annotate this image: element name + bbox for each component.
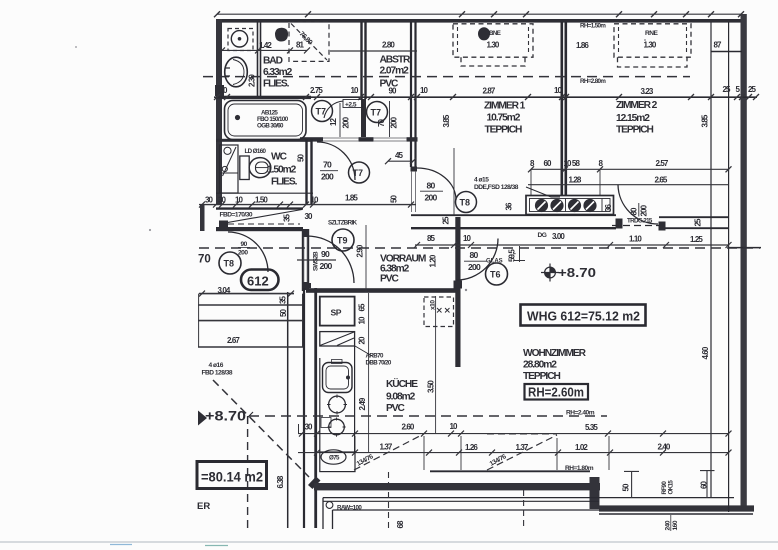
svg-text:200: 200: [320, 261, 333, 271]
kitchen oval fixture: [321, 450, 346, 464]
svg-text:65: 65: [358, 303, 367, 312]
svg-text:DDE,FSD 128/38: DDE,FSD 128/38: [474, 184, 519, 191]
svg-text:36: 36: [604, 203, 613, 212]
door jamb lines alcoves: [323, 138, 407, 141]
svg-text:=80.14 m2: =80.14 m2: [201, 469, 263, 485]
svg-text:ABSTR.: ABSTR.: [380, 55, 413, 66]
svg-text:50: 50: [279, 308, 288, 317]
svg-text:4 ø15: 4 ø15: [474, 177, 489, 184]
svg-text:WOHNZIMMER: WOHNZIMMER: [523, 348, 587, 359]
wc bowl inner line: [256, 167, 269, 169]
svg-text:1.50m2: 1.50m2: [267, 165, 297, 176]
speck4: [644, 39, 646, 41]
svg-text:1.86: 1.86: [576, 41, 589, 50]
svg-text:RNE: RNE: [645, 30, 659, 37]
wall pier left bad corner: [215, 85, 224, 96]
svg-text:45: 45: [395, 151, 404, 160]
svg-text:DG: DG: [538, 232, 547, 239]
svg-text:10: 10: [463, 234, 472, 243]
dim line kueche bottom row2: [298, 452, 729, 454]
svg-text:ARB70: ARB70: [366, 353, 384, 360]
svg-text:1.10: 1.10: [629, 235, 642, 244]
svg-text:28.80m2: 28.80m2: [523, 360, 557, 371]
svg-text:134/76: 134/76: [489, 453, 508, 468]
landing right vertical: [302, 294, 304, 347]
svg-text:T7: T7: [316, 107, 327, 117]
ticks wc row: [199, 202, 414, 208]
top dim ticks: [214, 11, 744, 17]
svg-text:10: 10: [358, 316, 367, 325]
wc shaft circle small: [222, 166, 227, 171]
svg-text:WC: WC: [271, 152, 288, 163]
svg-text:25: 25: [442, 216, 451, 225]
roof window zimmer1 bracket: [461, 57, 525, 66]
svg-text:200: 200: [640, 204, 649, 216]
svg-text:2.67: 2.67: [227, 336, 240, 345]
svg-text:70: 70: [323, 160, 332, 170]
ticks corridor row: [414, 242, 732, 248]
svg-text:200: 200: [468, 262, 481, 272]
wc bowl: [249, 158, 271, 178]
svg-text:10.75m2: 10.75m2: [487, 113, 521, 124]
svg-text:6.38: 6.38: [276, 475, 285, 488]
svg-text:SZLTZBRIK: SZLTZBRIK: [328, 220, 358, 227]
wall wc south line: [216, 192, 313, 194]
svg-text:OGB 30/60: OGB 30/60: [257, 123, 284, 130]
svg-text:RH=1.80m: RH=1.80m: [565, 465, 594, 472]
svg-text:T7: T7: [353, 168, 364, 178]
svg-text:200: 200: [425, 193, 438, 203]
svg-text:200: 200: [342, 116, 351, 128]
svg-text:1.30: 1.30: [644, 41, 657, 50]
kitchen small box h2: [321, 418, 331, 428]
svg-text:36: 36: [505, 202, 514, 211]
svg-text:1.37: 1.37: [380, 443, 393, 452]
door label circle t9: [332, 229, 354, 251]
svg-text:3.50: 3.50: [427, 380, 436, 393]
kitchen hob cross1: [327, 395, 347, 415]
svg-text:KÜCHE: KÜCHE: [386, 377, 418, 390]
svg-text:10 58: 10 58: [564, 159, 581, 168]
svg-text:3.23: 3.23: [641, 87, 654, 96]
door leaf bad alcove: [339, 103, 341, 137]
terrace floor line mid: [323, 500, 599, 502]
wall tub south: [216, 139, 312, 142]
chain ticks y96: [214, 94, 759, 100]
svg-text:ZIMMER 1: ZIMMER 1: [484, 101, 526, 112]
svg-text:RH=2.80m: RH=2.80m: [580, 78, 606, 85]
landing line 3 2.67: [198, 346, 303, 348]
whg area box: [521, 305, 646, 326]
svg-text:68: 68: [396, 520, 405, 529]
divider 240 160: [670, 515, 672, 531]
svg-text:90: 90: [241, 241, 248, 248]
svg-text:FLIES.: FLIES.: [263, 79, 290, 90]
svg-text:81: 81: [296, 41, 305, 50]
svg-text:2.60: 2.60: [402, 423, 415, 432]
parapet wall bottom band: [314, 483, 600, 490]
svg-text:5.35: 5.35: [585, 423, 598, 432]
svg-text:2.57: 2.57: [656, 159, 669, 168]
wall washer niche divider: [258, 21, 261, 96]
kitchen hob circle1: [329, 396, 346, 413]
wall left outer: [216, 19, 222, 204]
svg-text:T7: T7: [371, 108, 382, 118]
svg-text:87: 87: [714, 41, 723, 50]
door arc entrance: [228, 232, 268, 272]
svg-text:RH=1.50m: RH=1.50m: [580, 23, 606, 30]
bathtub outer: [225, 101, 307, 140]
svg-text:35: 35: [279, 295, 288, 304]
door jamb lines zimmer1: [412, 171, 416, 212]
svg-text:x10: x10: [430, 300, 437, 310]
svg-text:10: 10: [220, 86, 229, 95]
svg-text:Ø75: Ø75: [329, 455, 340, 462]
washing machine circle: [231, 31, 247, 47]
svg-text:30: 30: [205, 196, 214, 205]
wall corridor south top line: [411, 214, 616, 216]
dim line 128-265 row: [528, 184, 729, 186]
kitchen stove rect: [320, 332, 355, 346]
svg-text:+8.70: +8.70: [205, 409, 246, 424]
dashed vertical left: [247, 416, 249, 533]
svg-text:TEPPICH: TEPPICH: [485, 125, 522, 136]
door label circle t6 glas: [486, 263, 508, 285]
svg-text:BAD: BAD: [263, 56, 283, 67]
svg-text:3.85: 3.85: [701, 114, 710, 127]
wall corridor east of z2door: [659, 217, 729, 228]
dim line corridor row: [415, 244, 729, 246]
washing machine dot: [238, 37, 242, 41]
svg-text:10: 10: [311, 196, 320, 205]
svg-text:6.33m2: 6.33m2: [263, 67, 293, 78]
svg-text:T8: T8: [224, 259, 235, 269]
svg-text:TRDG.215: TRDG.215: [627, 218, 653, 225]
svg-text:SP: SP: [331, 308, 342, 318]
terrace vertical left: [323, 498, 333, 529]
wall pier bad alcove: [361, 99, 366, 137]
sloped ceiling diagonal bad: [291, 24, 327, 61]
socket divider: [566, 199, 603, 212]
right wall dim line: [728, 22, 730, 512]
plus25 box: [343, 100, 363, 108]
wall t9 vorraum-west: [303, 229, 308, 291]
svg-text:60: 60: [544, 159, 553, 168]
wc shaft rect: [220, 145, 239, 193]
right wall inner face line: [710, 22, 712, 497]
washbasin: [225, 57, 248, 87]
svg-text:2.65: 2.65: [655, 176, 668, 185]
svg-text:10: 10: [420, 86, 429, 95]
svg-text:200: 200: [321, 172, 334, 182]
svg-text:1.28: 1.28: [569, 176, 582, 185]
right corner step line: [711, 51, 742, 53]
svg-text:134/76: 134/76: [356, 453, 375, 468]
wall kueche nib: [302, 283, 311, 288]
svg-text:90: 90: [321, 249, 330, 259]
wall bottom right band: [599, 505, 754, 511]
svg-text:50: 50: [390, 194, 399, 203]
door label circle t8 entrance: [219, 252, 241, 274]
door label circle t7 abstr: [367, 102, 388, 123]
svg-text:2.40: 2.40: [658, 443, 671, 452]
svg-text:80: 80: [470, 250, 479, 260]
wc shaft circle top: [224, 147, 231, 154]
svg-text:TEPPICH: TEPPICH: [523, 371, 560, 382]
vertical dim vorraum 2.90: [365, 225, 367, 292]
vertical marker 50 bottom: [624, 471, 639, 498]
socket slashes: [538, 202, 595, 210]
svg-text:3.00: 3.00: [552, 232, 565, 241]
svg-text:ZIMMER 2: ZIMMER 2: [616, 100, 658, 111]
svg-text:25: 25: [694, 218, 703, 227]
dashed vertical terrace a: [388, 472, 390, 528]
kitchen bottom cabinet: [320, 452, 355, 472]
wall kueche north band: [306, 288, 456, 293]
wall kueche-wohnzimmer: [455, 217, 460, 367]
svg-text:80: 80: [427, 181, 436, 191]
dashed segment over 1.37 bay: [487, 433, 557, 435]
svg-text:RAW=100: RAW=100: [337, 505, 362, 512]
dim line washer row: [222, 49, 307, 51]
svg-text:9.08m2: 9.08m2: [386, 392, 416, 403]
roof window zimmer2 dashed rect: [614, 24, 691, 57]
kitchen counter sides: [320, 346, 355, 452]
terrace circle marker: [326, 502, 333, 509]
svg-text:1.25: 1.25: [690, 235, 703, 244]
svg-text:DBB 70/20: DBB 70/20: [366, 360, 392, 367]
door hinge block z2 east: [659, 222, 666, 231]
svg-text:T8: T8: [460, 198, 471, 208]
svg-text:1.85: 1.85: [345, 194, 358, 203]
svg-text:FBD 128/38: FBD 128/38: [202, 370, 233, 377]
blob roof window zimmer1: [478, 27, 490, 40]
svg-text:50: 50: [622, 483, 631, 492]
wall bottom right lower line: [599, 513, 753, 515]
svg-text:T6: T6: [490, 270, 501, 280]
vertical dim kueche 3.50: [435, 296, 437, 433]
svg-text:LD Ø160: LD Ø160: [245, 148, 267, 155]
svg-text:30: 30: [218, 196, 227, 205]
ticks 3.04: [199, 291, 294, 297]
wall bad south: [216, 96, 311, 99]
svg-text:1.42: 1.42: [259, 41, 272, 50]
wall alcove south segments: [300, 137, 323, 141]
svg-text:240: 240: [665, 520, 672, 530]
svg-text:30: 30: [305, 423, 314, 432]
scanner color marks: [110, 544, 132, 546]
roof window zimmer2 inner rails: [619, 27, 687, 53]
kitchen sink outer: [323, 363, 353, 393]
dim line wc row: [199, 204, 416, 206]
wc shaft divider: [220, 172, 239, 174]
svg-text:+8.70: +8.70: [558, 266, 596, 280]
door label circle t7 bad: [312, 101, 333, 122]
svg-text:SWS2B: SWS2B: [313, 251, 320, 271]
spot elevation symbol wohnzimmer: [541, 264, 559, 282]
door leaf abstr alcove: [389, 101, 391, 137]
svg-text:FBD=170/30: FBD=170/30: [220, 212, 253, 219]
svg-text:200: 200: [390, 116, 399, 128]
wall abstr-zimmer1: [411, 22, 416, 167]
svg-text:12.15m2: 12.15m2: [616, 113, 650, 124]
dashed rh line corridor: [199, 247, 760, 249]
ticks 45: [385, 158, 416, 164]
svg-text:59,5: 59,5: [508, 249, 517, 262]
elevation tick left: [248, 412, 253, 424]
svg-text:50: 50: [297, 153, 306, 162]
kitchen stove leader: [355, 346, 372, 356]
entrance wedge block: [219, 221, 228, 230]
svg-text:FLIES.: FLIES.: [271, 177, 298, 188]
total area box: [197, 462, 267, 489]
svg-text:RH=2.60m: RH=2.60m: [528, 386, 584, 400]
svg-text:2.80: 2.80: [382, 41, 395, 50]
washbasin inner: [233, 60, 244, 85]
svg-text:4 ø16: 4 ø16: [209, 362, 224, 369]
wall kueche west face: [314, 288, 317, 528]
terrace floor line lower: [333, 509, 600, 511]
door hinge block t9 top: [302, 229, 309, 237]
kitchen hob circle2: [329, 419, 345, 435]
washbasin taps: [225, 68, 231, 76]
door threshold dashes z2: [612, 225, 660, 227]
shaft dashed box kueche: [424, 297, 454, 327]
door hinge block zimmer1: [411, 167, 418, 172]
wall kueche west inner: [303, 288, 305, 528]
svg-text:2.07m2: 2.07m2: [380, 66, 410, 77]
chain line y96: [214, 96, 757, 98]
svg-text:PVC: PVC: [386, 403, 405, 414]
landing line 1: [198, 304, 303, 306]
wc bowl inner: [256, 162, 269, 174]
dim line 3.04: [199, 293, 294, 295]
socket circles: [535, 199, 597, 212]
svg-text:20: 20: [358, 336, 367, 345]
svg-text:ER: ER: [197, 501, 210, 512]
wall top outer: [216, 19, 742, 23]
svg-text:25: 25: [748, 85, 757, 94]
svg-text:1.26: 1.26: [465, 443, 478, 452]
svg-text:BNE: BNE: [489, 30, 501, 37]
svg-text:T9: T9: [337, 236, 348, 246]
svg-text:2.30: 2.30: [248, 74, 257, 87]
svg-text:1.20: 1.20: [429, 254, 438, 267]
vertical dim kueche 2.49: [368, 293, 370, 452]
bay extension verticals bottom: [355, 436, 609, 470]
scanner bottom line: [0, 541, 778, 543]
svg-text:TEPPICH: TEPPICH: [616, 125, 653, 136]
svg-text:10: 10: [351, 86, 360, 95]
svg-text:70: 70: [198, 254, 211, 266]
wall right outer: [741, 14, 747, 509]
top dimension line: [217, 13, 741, 15]
bathtub inner: [228, 104, 303, 136]
svg-text:1.30: 1.30: [487, 41, 500, 50]
wall entrance pier left: [200, 205, 205, 231]
socket block outer: [526, 196, 614, 215]
svg-text:2.49: 2.49: [358, 397, 367, 410]
dim line 45 zimmer1: [388, 160, 413, 162]
rh box: [525, 384, 589, 400]
kitchen sp box: [320, 297, 355, 326]
vertical marker 60 bottom: [700, 470, 715, 498]
wc shaft diagonal: [223, 147, 237, 176]
entrance wedge dashes: [228, 223, 300, 225]
speck3: [465, 289, 467, 291]
parapet step vertical: [590, 477, 600, 509]
terrace floor line upper: [323, 497, 734, 499]
svg-text:2.75: 2.75: [310, 86, 323, 95]
dashed diagonal elevation leader: [213, 380, 309, 477]
extension vertical x454: [453, 148, 455, 215]
door arc wohnzimmer glas: [457, 239, 499, 281]
extension verticals sockets: [531, 169, 600, 195]
svg-text:30: 30: [305, 212, 314, 221]
door label circle t8 zimmer1: [456, 192, 477, 213]
marker 59,5: [514, 246, 525, 262]
svg-text:80: 80: [630, 207, 639, 216]
kitchen hob cross2: [328, 418, 346, 437]
door arc t9 vorraum: [307, 236, 354, 283]
entrance wedge bottom band: [216, 227, 303, 231]
svg-text:12: 12: [329, 117, 338, 126]
roof window zimmer2 bracket: [618, 57, 688, 67]
apartment number oval 612: [241, 270, 279, 291]
shaft marks kueche: [437, 308, 450, 313]
roof window zimmer1 dashed rect: [453, 24, 533, 57]
ticks row2: [314, 450, 732, 456]
door arc zimmer2: [618, 185, 658, 224]
kitchen faucet mark: [332, 360, 343, 364]
svg-text:3.85: 3.85: [442, 114, 451, 127]
door nib block t6: [454, 281, 463, 289]
svg-text:WHG 612=75.12 m2: WHG 612=75.12 m2: [527, 309, 640, 324]
dashed rh line bad-zimmer rooms: [203, 76, 690, 78]
dashed diagonal bay2: [487, 435, 557, 470]
door arc zimmer1: [417, 168, 456, 200]
entrance wedge diagonal: [219, 210, 302, 225]
svg-text:2.90: 2.90: [356, 244, 365, 257]
bathtub drain dot: [235, 115, 240, 120]
svg-text:160: 160: [672, 520, 679, 530]
washing machine dashed box: [228, 29, 253, 51]
svg-text:10: 10: [450, 422, 459, 431]
terrace edge line outside: [287, 292, 289, 528]
socket block inner: [530, 199, 611, 212]
dim line zimmer2 sockets row: [531, 168, 729, 170]
svg-text:GLAS: GLAS: [486, 259, 503, 265]
kitchen stove diagonals: [320, 332, 354, 346]
svg-text:85: 85: [427, 234, 436, 243]
wall wc east: [307, 139, 312, 204]
door hinge block t9 bottom: [302, 282, 309, 290]
svg-text:2.87: 2.87: [483, 87, 496, 96]
landing line 2: [198, 320, 303, 322]
wall corridor south bottom line: [411, 227, 616, 229]
parapet top face line: [430, 470, 590, 472]
ticks y169: [528, 166, 732, 172]
dim line t9 label divider: [297, 259, 336, 261]
svg-text:200: 200: [238, 250, 248, 257]
corner mitre bottom-left: [308, 477, 321, 490]
svg-text:4.60: 4.60: [701, 346, 710, 359]
svg-text:25: 25: [723, 85, 732, 94]
svg-text:+2.5: +2.5: [345, 102, 357, 109]
socket leader line: [526, 187, 560, 197]
dashed diagonal bay1: [354, 434, 424, 470]
svg-text:RH=2.40m: RH=2.40m: [566, 410, 595, 417]
